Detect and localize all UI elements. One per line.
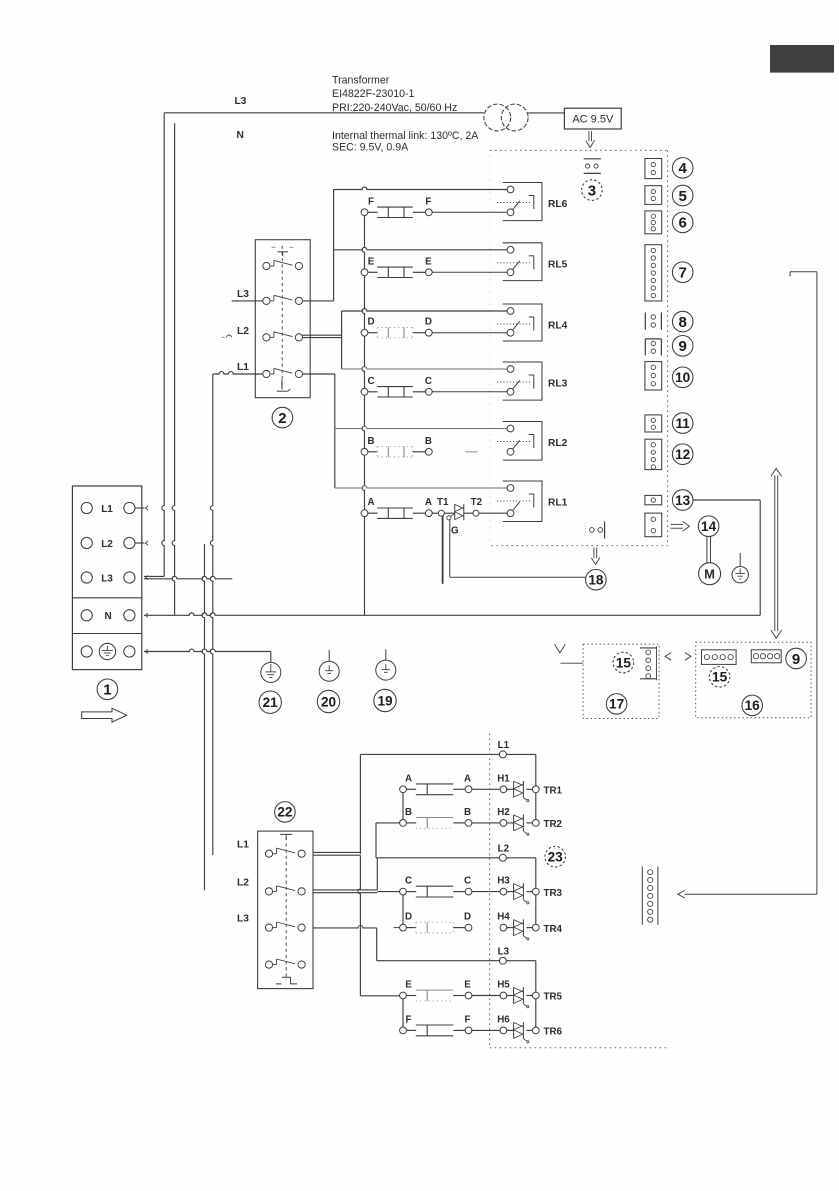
svg-text:AC 9.5V: AC 9.5V <box>572 114 614 126</box>
svg-text:F: F <box>465 1014 471 1025</box>
svg-text:16: 16 <box>745 698 761 713</box>
svg-text:F: F <box>406 1014 412 1025</box>
svg-text:14: 14 <box>701 519 717 534</box>
svg-text:18: 18 <box>588 573 604 588</box>
svg-text:H6: H6 <box>497 1014 510 1025</box>
svg-text:TR1: TR1 <box>544 786 563 797</box>
svg-text:Internal thermal link: 130ºC,: Internal thermal link: 130ºC, 2A <box>332 130 479 142</box>
svg-text:L1: L1 <box>237 839 249 850</box>
svg-text:TR2: TR2 <box>544 819 563 830</box>
svg-text:N: N <box>237 130 244 141</box>
svg-text:E: E <box>464 980 471 991</box>
svg-text:10: 10 <box>675 370 690 385</box>
svg-text:M: M <box>704 566 715 581</box>
svg-text:B: B <box>425 436 432 447</box>
svg-text:L1: L1 <box>101 504 113 515</box>
svg-text:L2: L2 <box>237 877 249 888</box>
svg-text:L2: L2 <box>498 844 510 855</box>
svg-text:G: G <box>451 526 459 537</box>
svg-text:C: C <box>405 876 412 887</box>
svg-text:23: 23 <box>548 850 564 865</box>
svg-text:H4: H4 <box>497 912 510 923</box>
svg-text:T1: T1 <box>437 497 449 508</box>
svg-text:RL1: RL1 <box>548 498 568 509</box>
svg-text:20: 20 <box>321 694 336 709</box>
svg-text:TR5: TR5 <box>544 992 563 1003</box>
svg-text:RL3: RL3 <box>548 379 568 390</box>
svg-text:L3: L3 <box>237 913 249 924</box>
svg-text:C: C <box>425 376 432 387</box>
svg-text:C: C <box>367 376 374 387</box>
svg-text:A: A <box>425 497 432 508</box>
svg-text:F: F <box>368 196 374 207</box>
svg-text:4: 4 <box>679 160 688 177</box>
svg-text:E: E <box>425 256 432 267</box>
svg-text:13: 13 <box>675 493 691 508</box>
svg-text:B: B <box>367 436 374 447</box>
svg-text:1: 1 <box>103 682 111 699</box>
svg-text:E: E <box>368 256 375 267</box>
svg-text:L3: L3 <box>237 289 249 300</box>
svg-text:3: 3 <box>588 182 596 199</box>
svg-text:8: 8 <box>679 314 687 331</box>
svg-text:B: B <box>405 807 412 818</box>
svg-text:TR4: TR4 <box>544 924 563 935</box>
svg-text:L1: L1 <box>237 362 249 373</box>
svg-text:RL5: RL5 <box>548 259 568 270</box>
svg-text:H3: H3 <box>497 876 510 887</box>
svg-text:L3: L3 <box>101 573 113 584</box>
svg-text:H1: H1 <box>497 773 510 784</box>
svg-text:Transformer: Transformer <box>332 75 390 87</box>
svg-text:9: 9 <box>792 651 800 668</box>
svg-text:5: 5 <box>679 188 687 205</box>
svg-text:B: B <box>464 807 471 818</box>
svg-text:D: D <box>367 317 374 328</box>
svg-text:C: C <box>464 876 471 887</box>
svg-text:17: 17 <box>609 697 624 712</box>
svg-text:D: D <box>405 912 412 923</box>
svg-text:EI4822F-23010-1: EI4822F-23010-1 <box>332 88 415 100</box>
svg-text:A: A <box>367 497 374 508</box>
svg-text:9: 9 <box>679 338 687 355</box>
svg-text:TR6: TR6 <box>544 1027 563 1038</box>
svg-text:19: 19 <box>377 693 393 708</box>
svg-text:6: 6 <box>679 215 687 232</box>
svg-text:RL4: RL4 <box>548 321 568 332</box>
svg-text:L3: L3 <box>235 96 247 107</box>
svg-text:TR3: TR3 <box>544 888 563 899</box>
svg-text:T2: T2 <box>471 497 483 508</box>
svg-text:12: 12 <box>675 447 691 462</box>
svg-text:15: 15 <box>712 670 728 685</box>
svg-text:L2: L2 <box>101 539 113 550</box>
svg-text:7: 7 <box>679 265 687 282</box>
svg-text:D: D <box>464 912 471 923</box>
svg-text:A: A <box>405 773 412 784</box>
svg-text:H5: H5 <box>497 980 510 991</box>
svg-text:L3: L3 <box>498 946 510 957</box>
svg-text:E: E <box>405 980 412 991</box>
svg-text:A: A <box>464 773 471 784</box>
svg-text:RL6: RL6 <box>548 199 568 210</box>
svg-text:F: F <box>425 196 431 207</box>
svg-text:H2: H2 <box>497 807 510 818</box>
svg-text:11: 11 <box>676 416 691 431</box>
svg-text:N: N <box>105 611 112 622</box>
svg-text:L2: L2 <box>237 326 249 337</box>
svg-text:D: D <box>425 317 432 328</box>
svg-text:15: 15 <box>616 655 632 670</box>
svg-text:21: 21 <box>263 695 279 710</box>
svg-text:22: 22 <box>277 805 293 820</box>
svg-text:2: 2 <box>278 410 286 427</box>
svg-text:RL2: RL2 <box>548 438 568 449</box>
svg-text:L1: L1 <box>498 740 510 751</box>
svg-text:SEC: 9.5V, 0.9A: SEC: 9.5V, 0.9A <box>332 142 409 154</box>
